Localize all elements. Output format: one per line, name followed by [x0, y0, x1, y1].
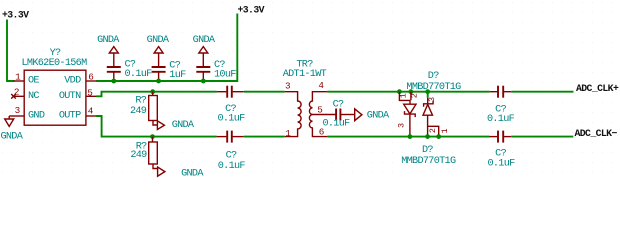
svg-text:1: 1	[15, 71, 21, 82]
svg-text:0.1uF: 0.1uF	[217, 114, 245, 125]
svg-text:6: 6	[88, 72, 94, 83]
svg-text:1: 1	[398, 93, 408, 98]
junction D1 pin 2	[409, 89, 414, 94]
center tap pin 5 lead	[312, 114, 336, 116]
oscillator Y? LMK62E0-156M body	[24, 70, 86, 125]
svg-text:3: 3	[285, 81, 291, 92]
ground GNDA below R1	[153, 121, 164, 130]
svg-text:3: 3	[427, 97, 437, 102]
ground GNDA right of center-tap cap	[355, 109, 362, 121]
svg-text:4: 4	[318, 80, 324, 91]
svg-text:D?: D?	[422, 145, 433, 156]
svg-text:GNDA: GNDA	[147, 35, 170, 46]
junction	[201, 79, 206, 84]
capacitor C? 1uF (bypass 2)	[154, 47, 163, 67]
svg-text:GNDA: GNDA	[172, 120, 195, 131]
svg-text:MMBD770T1G: MMBD770T1G	[406, 82, 461, 93]
svg-text:0.1uF: 0.1uF	[125, 69, 153, 80]
svg-text:GNDA: GNDA	[97, 35, 120, 46]
svg-text:MMBD770T1G: MMBD770T1G	[401, 156, 456, 167]
secondary winding	[309, 92, 327, 137]
svg-text:1: 1	[285, 128, 291, 139]
wire OUTN row	[96, 92, 216, 97]
pin 4 OUTP	[86, 115, 97, 117]
svg-text:VDD: VDD	[64, 76, 81, 87]
svg-text:OUTP: OUTP	[59, 111, 81, 122]
wire to transformer primary top	[244, 91, 285, 93]
svg-text:1: 1	[440, 128, 450, 133]
pin 2 NC with no-connect X	[14, 95, 25, 97]
svg-text:LMK62E0-156M: LMK62E0-156M	[22, 58, 88, 69]
ground GNDA below pin 3	[5, 116, 14, 126]
svg-text:GND: GND	[28, 111, 45, 122]
capacitor C? 0.1uF (series, top row)	[217, 91, 227, 93]
svg-text:3: 3	[397, 123, 407, 128]
svg-text:OE: OE	[28, 76, 39, 87]
capacitor C? 0.1uF (output top)	[490, 91, 497, 93]
svg-text:NC: NC	[28, 91, 39, 102]
capacitor C? 10uF (bypass 3)	[199, 47, 208, 67]
ground GNDA below R2	[153, 164, 165, 176]
pin 5 OUTN	[86, 95, 97, 97]
svg-text:GNDA: GNDA	[193, 35, 216, 46]
capacitor C? 0.1uF (output bottom)	[490, 136, 498, 138]
wire OUTP row	[96, 116, 216, 137]
D2 triangle	[423, 105, 433, 116]
svg-text:GNDA: GNDA	[0, 131, 23, 142]
wire stub to D2 cathode	[427, 92, 429, 98]
junction D2 pin 1	[436, 134, 441, 139]
svg-text:0.1uF: 0.1uF	[487, 158, 515, 169]
svg-text:3: 3	[15, 105, 21, 116]
svg-text:2: 2	[410, 93, 420, 98]
svg-text:D?: D?	[428, 71, 439, 82]
svg-text:1uF: 1uF	[169, 70, 186, 81]
pin 6 VDD	[86, 80, 97, 82]
pin 3 GND	[9, 115, 24, 117]
svg-text:GNDA: GNDA	[367, 111, 390, 122]
svg-text:OUTN: OUTN	[59, 91, 81, 102]
D1 triangle and schottky bar	[404, 104, 416, 114]
wire from +3.3V to pin 1	[7, 20, 15, 82]
wire secondary top to output	[327, 91, 489, 93]
junction D2 pin 2	[425, 134, 430, 139]
svg-text:ADT1-1WT: ADT1-1WT	[283, 69, 327, 80]
svg-text:GNDA: GNDA	[181, 168, 204, 179]
junction	[156, 79, 161, 84]
junction	[111, 79, 116, 84]
primary winding	[285, 92, 301, 137]
svg-text:249: 249	[130, 150, 147, 161]
junction D2 pin 3	[425, 89, 430, 94]
D1 pin leads	[399, 92, 411, 105]
svg-text:ADC_CLK+: ADC_CLK+	[576, 83, 619, 94]
svg-text:2: 2	[14, 87, 20, 98]
capacitor C? 0.1uF (center tap)	[335, 109, 337, 121]
pin 1 OE	[14, 80, 25, 82]
junction R2 top	[150, 134, 155, 139]
junction R1 top	[150, 89, 155, 94]
svg-text:C?: C?	[333, 100, 344, 111]
wire secondary bottom to output	[327, 136, 489, 138]
svg-text:0.1uF: 0.1uF	[322, 119, 350, 130]
svg-text:+3.3V: +3.3V	[2, 10, 29, 21]
svg-text:0.1uF: 0.1uF	[487, 114, 515, 125]
svg-text:249: 249	[130, 106, 147, 117]
svg-text:ADC_CLK−: ADC_CLK−	[575, 128, 618, 139]
junction D1 pin 1	[397, 89, 402, 94]
svg-text:10uF: 10uF	[214, 70, 236, 81]
svg-text:+3.3V: +3.3V	[238, 5, 265, 16]
svg-text:2: 2	[428, 128, 438, 133]
svg-text:5: 5	[87, 87, 93, 98]
capacitor C? 0.1uF (bypass 1)	[109, 47, 118, 67]
svg-text:4: 4	[88, 106, 94, 117]
capacitor C? 0.1uF (series, bottom row)	[217, 136, 227, 138]
junction D1 pin 3	[408, 134, 413, 139]
svg-text:0.1uF: 0.1uF	[218, 161, 246, 172]
wire to transformer primary bottom	[244, 136, 285, 138]
wire VDD rail from pin 6 up to +3.3V	[96, 14, 237, 82]
